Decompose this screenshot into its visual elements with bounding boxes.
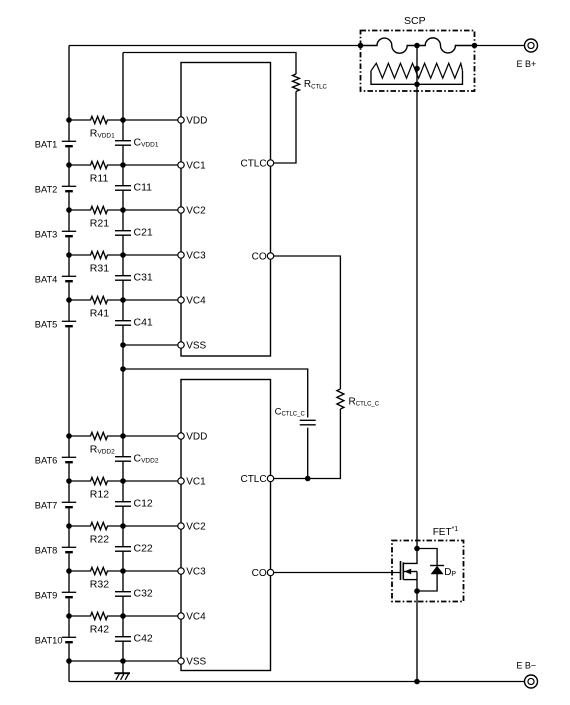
IC1 pin CTLC [240,159,273,170]
junction at fuse midpoint [414,43,420,49]
IC1 pin VDD [178,116,208,127]
wire: left battery bus vertical segments [68,46,70,682]
svg-text:C22: C22 [134,542,153,554]
junction on left bus at VC3 row [66,252,72,258]
resistor R11 row wire + zigzag [69,161,123,168]
wire: IC2 CO to FET gate [274,572,401,574]
svg-text:R21: R21 [90,218,109,230]
junction at heater bracket center [414,82,420,88]
svg-text:SCP: SCP [404,15,426,27]
junction on cap bus at IC2 VC2 row [120,523,126,529]
IC2 pin CTLC [240,474,273,485]
svg-text:BAT9: BAT9 [35,591,58,601]
resistor R31 row wire + zigzag [69,251,123,258]
svg-text:R11: R11 [90,173,109,185]
junction on left bus at VC1 row [66,162,72,168]
wire: capacitor bus vertical segments [122,53,124,662]
resistor R32 row wire + zigzag [69,567,123,574]
svg-text:VC3: VC3 [186,567,206,578]
IC2 pin VSS [178,657,207,668]
junction on cap bus at VC3 row [120,252,126,258]
svg-text:BAT3: BAT3 [35,230,58,240]
svg-text:C12: C12 [134,497,153,509]
capacitor CVDD1 [115,136,159,148]
IC2 pin CO [252,568,274,579]
svg-text:BAT10: BAT10 [35,636,63,646]
svg-text:C31: C31 [134,271,153,283]
svg-text:C42: C42 [134,632,153,644]
svg-text:BAT4: BAT4 [35,275,58,285]
battery BAT3 [35,230,76,240]
svg-text:BAT6: BAT6 [35,456,58,466]
resistor RCTLC_C [337,389,380,409]
resistor RVDD2 row wire + zigzag [69,432,123,439]
svg-text:E B+: E B+ [517,59,537,69]
junction on left bus at VC2 row [66,207,72,213]
capacitor CVDD2 [115,452,159,464]
diode DP (body diode) [417,549,456,592]
op-amp U2 (protection IC 2) body [181,380,271,671]
heater resistor of SCP [371,63,463,78]
junction on cap bus at VC1 row [120,162,126,168]
capacitor C31 [115,271,153,283]
svg-text:VC2: VC2 [186,522,206,533]
junction on left bus at VC4 row [66,297,72,303]
capacitor C12 [115,497,153,509]
wire: cap bus VSS2 to ground [122,661,124,673]
wire: main bus FET source to bottom rail [416,591,418,682]
junction on cap bus at IC2 VC3 row [120,568,126,574]
IC2 pin VC4 [178,612,206,623]
svg-text:VC4: VC4 [186,296,206,307]
capacitor C41 [115,316,153,328]
IC1 pin VC4 [178,296,206,307]
svg-text:CO: CO [252,568,267,579]
wire: row VC3 to IC1 pin [123,254,178,256]
junction on cap bus at IC2 VC4 row [120,613,126,619]
svg-text:R31: R31 [90,263,109,275]
svg-text:BAT8: BAT8 [35,546,58,556]
junction on left bus at VDD row [66,117,72,123]
resistor R12 row wire + zigzag [69,477,123,484]
resistor RCTLC [293,74,328,92]
battery BAT7 [35,501,76,511]
IC1 pin VC1 [178,161,206,172]
wire: SCP right lead to EB+ terminal [475,45,525,47]
svg-text:VSS: VSS [186,657,206,668]
wire: row VC4 (IC2) to pin [123,615,178,617]
capacitor C32 [115,587,153,599]
svg-text:VDD: VDD [186,116,207,127]
svg-text:R12: R12 [90,489,109,501]
ground [114,673,130,680]
wire: row VDD (IC2) to pin [123,435,178,437]
wire: bottom rail to EB- terminal [69,681,525,683]
IC1 pin CO [252,252,274,263]
wire: IC2 VSS row from left bus to pin [69,660,178,662]
svg-text:R42: R42 [90,624,109,636]
junction on left bus at IC2 VC2 row [66,523,72,529]
capacitor C22 [115,542,153,554]
junction FET source [414,588,420,594]
battery BAT9 [35,591,76,601]
svg-text:CTLC: CTLC [240,159,266,170]
svg-text:C32: C32 [134,587,153,599]
junction of main bus with bottom rail [414,679,420,685]
FET outline box [392,541,464,602]
battery BAT4 [35,275,76,285]
svg-text:VSS: VSS [186,341,206,352]
wire: VSS1 net to CCTLC_C [123,369,308,418]
SCP protector outline box [361,31,475,92]
junction on left bus at IC2 VDD row [66,433,72,439]
svg-text:BAT5: BAT5 [35,320,58,330]
wire: RCTLC_C bottom to IC2 CTLC pin [274,409,341,479]
junction on cap bus at IC1 VSS row [120,342,126,348]
IC1 pin VC3 [178,251,206,262]
battery BAT2 [35,185,76,195]
IC2 pin VDD [178,432,208,443]
junction node on CTLC2 net [305,476,311,482]
IC1 pin VC2 [178,206,206,217]
svg-text:CTLC: CTLC [240,474,266,485]
wire: VDD sense rail from capacitor bus to RCTLC [123,53,296,75]
junction on cap bus at IC2 VC1 row [120,478,126,484]
wire: row VC1 to IC1 pin [123,164,178,166]
wire: IC1 VSS row from cap bus to pin [123,344,178,346]
svg-text:CO: CO [252,252,267,263]
svg-text:VC1: VC1 [186,161,206,172]
svg-text:VC1: VC1 [186,477,206,488]
capacitor C21 [115,226,153,238]
IC1 pin VSS [178,341,207,352]
wire: CCTLC_C bottom to CTLC2 net [307,428,309,479]
resistor R42 row wire + zigzag [69,612,123,619]
op-amp U1 (protection IC 1) body [181,63,271,357]
wire: heater end bracket [371,71,463,85]
IC2 pin VC1 [178,477,206,488]
junction on cap bus at CCTLC_C branch [120,366,126,372]
svg-text:R41: R41 [90,308,109,320]
junction on cap bus at IC2 VSS row [120,658,126,664]
junction on cap bus at VC2 row [120,207,126,213]
junction on cap bus at IC2 VDD row [120,433,126,439]
wire: row VC4 to IC1 pin [123,299,178,301]
wire: row VDD to IC1 pin [123,119,178,121]
svg-text:R22: R22 [90,534,109,546]
IC2 pin VC2 [178,522,206,533]
svg-text:BAT1: BAT1 [35,140,58,150]
battery BAT8 [35,546,76,556]
capacitor C42 [115,632,153,644]
capacitor CCTLC_C [275,407,316,425]
svg-text:BAT2: BAT2 [35,185,58,195]
IC2 pin VC3 [178,567,206,578]
transistor Q1 (FET) symbol [401,549,418,592]
fuse element F1 (left) [361,38,418,53]
resistor R21 row wire + zigzag [69,206,123,213]
junction at heater center [414,66,420,72]
junction at SCP right lead [472,43,478,49]
wire: fuse midpoint to heater [416,46,418,85]
battery BAT10 [35,636,76,646]
battery BAT6 [35,456,76,466]
junction on left bus at IC2 VSS row [66,658,72,664]
svg-text:VC2: VC2 [186,206,206,217]
junction at SCP left lead [358,43,364,49]
wire: row VC1 (IC2) to pin [123,480,178,482]
wire: row VC3 (IC2) to pin [123,570,178,572]
svg-text:BAT7: BAT7 [35,501,58,511]
terminal EB+ [517,39,538,69]
wire: IC1 CO to RCTLC_C [274,256,341,389]
svg-text:C11: C11 [134,181,153,193]
svg-text:VC3: VC3 [186,251,206,262]
wire: row VC2 to IC1 pin [123,209,178,211]
junction on left bus at IC2 VC1 row [66,478,72,484]
wire: top rail from left bus to SCP [69,45,361,47]
svg-text:VDD: VDD [186,432,207,443]
junction FET drain [414,546,420,552]
svg-text:VC4: VC4 [186,612,206,623]
battery BAT5 [35,320,76,330]
junction on left bus at IC2 VC3 row [66,568,72,574]
svg-text:E B−: E B− [516,661,536,671]
svg-text:C41: C41 [134,316,153,328]
junction on cap bus at VDD row [120,117,126,123]
capacitor C11 [115,181,152,193]
resistor R22 row wire + zigzag [69,522,123,529]
wire: RCTLC bottom to IC1 CTLC pin [274,92,296,164]
resistor RVDD1 row wire + zigzag [69,116,123,123]
svg-text:R32: R32 [90,579,109,591]
svg-text:C21: C21 [134,226,153,238]
terminal EB- [516,661,537,689]
wire: row VC2 (IC2) to pin [123,525,178,527]
wire: main bus SCP heater to FET drain [416,84,418,548]
junction on left bus at IC2 VC4 row [66,613,72,619]
battery BAT1 [35,140,76,150]
fuse element F2 (right) [417,38,475,53]
junction on cap bus at VC4 row [120,297,126,303]
resistor R41 row wire + zigzag [69,296,123,303]
